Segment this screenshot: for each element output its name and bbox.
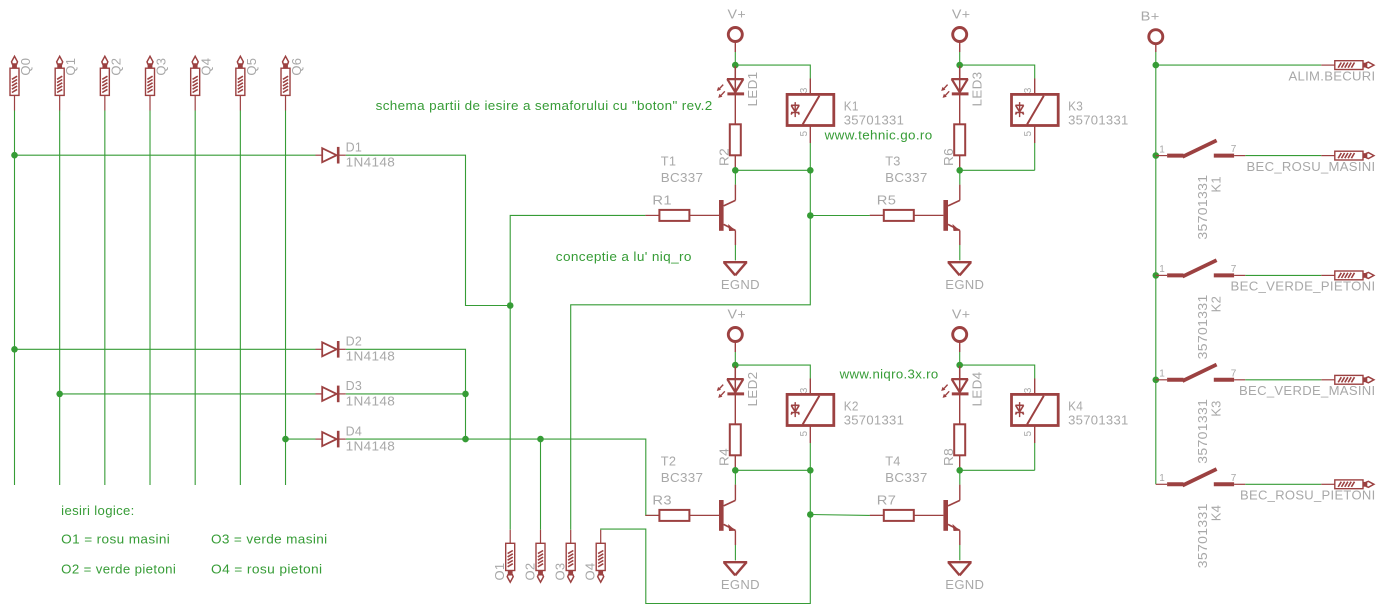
junction collector node <box>956 167 963 174</box>
svg-text:35701331: 35701331 <box>1068 413 1129 428</box>
supply V+ ring (T2 stage) <box>728 328 742 342</box>
note O2 <box>61 562 176 577</box>
pin R3 right lead / base <box>689 514 719 516</box>
svg-text:35701331: 35701331 <box>844 413 905 428</box>
transistor T3 <box>943 200 960 231</box>
pin 5 (K2) <box>809 426 811 444</box>
svg-text:Q0: Q0 <box>18 58 33 76</box>
pin number 7 (K2 contact) <box>1231 264 1237 275</box>
pin 5 (K4) <box>1034 426 1036 444</box>
note www.tehnic.go.ro <box>824 127 933 142</box>
wire node C to O3 <box>571 216 811 530</box>
svg-text:R2: R2 <box>717 148 732 166</box>
svg-text:V+: V+ <box>952 7 971 22</box>
svg-text:5: 5 <box>799 131 810 137</box>
note conceptie <box>556 249 692 264</box>
junction K2 pin5 node <box>807 467 814 474</box>
value 35701331 (K2 contact) <box>1195 294 1210 359</box>
transistor T1 <box>719 200 736 231</box>
label R5 <box>877 193 897 208</box>
svg-text:1N4148: 1N4148 <box>346 155 396 170</box>
label EGND (T2) <box>721 577 760 592</box>
label BEC_VERDE_MASINI <box>1239 383 1376 398</box>
svg-text:Q6: Q6 <box>289 58 304 76</box>
label R8 <box>941 448 956 466</box>
pin collector lead <box>959 185 961 201</box>
value BC337 (T3) <box>885 170 928 185</box>
pin R7 input lead <box>870 514 885 516</box>
wire net Q4 vertical <box>194 111 196 486</box>
wire V+ stub <box>734 352 736 365</box>
junction collector node <box>732 467 739 474</box>
wire B+ bus vertical <box>1155 65 1157 484</box>
svg-text:Q3: Q3 <box>154 58 169 76</box>
svg-text:5: 5 <box>799 431 810 437</box>
supply B+ ring <box>1149 30 1163 44</box>
wire D2 cathode down <box>346 349 466 439</box>
junction B+ bus / K2 contact <box>1153 272 1160 279</box>
note O3 <box>211 532 328 547</box>
note www.niqro.3x.ro <box>839 367 939 382</box>
label T2 <box>661 453 677 468</box>
svg-text:O2: O2 <box>523 563 538 581</box>
pin number 5 (K3) <box>1023 131 1034 137</box>
pin number 5 (K4) <box>1023 431 1034 437</box>
wire D3 cathode <box>346 393 466 395</box>
pin number 1 (K3 contact) <box>1159 369 1165 380</box>
pin number 1 (K1 contact) <box>1159 144 1165 155</box>
ground EGND (T3) <box>948 262 972 275</box>
junction V+ node <box>956 62 963 69</box>
label K3 <box>1068 98 1083 113</box>
svg-text:K3: K3 <box>1068 98 1083 113</box>
svg-text:schema partii de iesire a sema: schema partii de iesire a semaforului cu… <box>376 98 713 113</box>
label K4 (contact) <box>1208 505 1223 522</box>
pin R2 top lead <box>734 95 736 124</box>
note O4 <box>211 562 323 577</box>
svg-text:O4 = rosu pietoni: O4 = rosu pietoni <box>211 562 323 577</box>
junction Q6/D4 row <box>282 436 289 443</box>
svg-text:3: 3 <box>799 387 810 393</box>
value 35701331 (K1) <box>844 113 905 128</box>
wire net Q0 vertical <box>14 111 16 486</box>
label K1 <box>844 98 859 113</box>
pin collector lead <box>959 485 961 501</box>
wire D3 anode row <box>60 393 316 395</box>
label Q0 <box>18 58 33 76</box>
wire V+ stub <box>734 52 736 65</box>
label K4 <box>1068 398 1083 413</box>
wire node B to O2 <box>540 439 542 530</box>
pin number 5 (K2) <box>799 431 810 437</box>
svg-text:5: 5 <box>1023 131 1034 137</box>
wire collector node to K3 pin 5 <box>960 169 1035 171</box>
svg-text:BEC_VERDE_PIETONI: BEC_VERDE_PIETONI <box>1231 279 1376 294</box>
resistor R5 <box>884 210 914 221</box>
junction T3 base feed <box>807 212 814 219</box>
wire V+ to K4 pin 3 <box>960 365 1035 378</box>
svg-text:O2 = verde pietoni: O2 = verde pietoni <box>61 562 176 577</box>
label Q4 <box>199 58 214 76</box>
svg-text:7: 7 <box>1231 473 1237 484</box>
svg-text:BC337: BC337 <box>661 470 704 485</box>
svg-text:1: 1 <box>1159 264 1165 275</box>
diode D2 <box>316 341 346 358</box>
resistor R1 <box>659 210 689 221</box>
junction collector node <box>956 467 963 474</box>
label O2 <box>523 563 538 581</box>
svg-text:LED1: LED1 <box>745 72 760 107</box>
pin number 3 (K3) <box>1023 87 1034 93</box>
pin 5 (K3) <box>1034 126 1036 144</box>
value 1N4148 (D2) <box>346 349 396 364</box>
pin 5 (K1) <box>809 126 811 144</box>
label Q2 <box>108 58 123 76</box>
label R6 <box>941 148 956 166</box>
svg-text:D4: D4 <box>346 423 363 438</box>
svg-text:35701331: 35701331 <box>1068 113 1129 128</box>
svg-text:3: 3 <box>799 87 810 93</box>
svg-text:1N4148: 1N4148 <box>346 393 396 408</box>
switch contact K2 <box>1156 260 1246 276</box>
pin R4 top lead <box>734 395 736 424</box>
resistor R2 <box>730 124 741 155</box>
svg-text:R6: R6 <box>941 148 956 166</box>
svg-text:T1: T1 <box>661 153 677 168</box>
svg-text:7: 7 <box>1231 264 1237 275</box>
resistor R3 <box>659 510 689 521</box>
svg-text:K1: K1 <box>1208 176 1223 193</box>
supply V+ ring (T3 stage) <box>953 28 967 42</box>
value 35701331 (K1 contact) <box>1195 175 1210 240</box>
pin R8 bottom lead <box>959 455 961 469</box>
relay coil K1 <box>787 94 834 125</box>
value BC337 (T1) <box>661 170 704 185</box>
resistor R6 <box>954 124 965 155</box>
svg-text:1N4148: 1N4148 <box>346 349 396 364</box>
supply V+ ring (T1 stage) <box>728 28 742 42</box>
svg-text:R3: R3 <box>652 493 672 508</box>
pin R2 bottom lead <box>734 155 736 169</box>
wire collector node to K1 pin 5 <box>735 169 810 171</box>
pin R5 input lead <box>870 214 885 216</box>
svg-text:V+: V+ <box>728 307 747 322</box>
pin 3 (K4) <box>1034 379 1036 395</box>
svg-text:7: 7 <box>1231 368 1237 379</box>
pin R6 top lead <box>959 95 961 124</box>
svg-text:R4: R4 <box>717 448 732 466</box>
wire B+ stub <box>1155 52 1157 65</box>
label R4 <box>717 448 732 466</box>
value 35701331 (K4) <box>1068 413 1129 428</box>
wire B+ to ALIM.BECURI <box>1156 64 1322 66</box>
wire R to collector node <box>734 169 736 171</box>
svg-text:Q2: Q2 <box>108 58 123 76</box>
wire to R7 <box>810 514 870 517</box>
label D1 <box>346 140 363 155</box>
diode D3 <box>316 386 346 403</box>
svg-text:BC337: BC337 <box>661 170 704 185</box>
wire collector node to K2 pin 5 <box>735 469 810 471</box>
ground EGND (T2) <box>723 562 747 575</box>
value 35701331 (K3 contact) <box>1195 399 1210 464</box>
pin collector lead <box>734 485 736 501</box>
svg-text:O1 = rosu masini: O1 = rosu masini <box>61 532 170 547</box>
relay coil K4 <box>1012 394 1059 425</box>
pin emitter lead <box>959 530 961 545</box>
label K2 <box>844 398 859 413</box>
svg-text:35701331: 35701331 <box>844 113 905 128</box>
resistor R8 <box>954 424 965 455</box>
connector Q1 <box>55 56 64 110</box>
svg-text:conceptie a lu' niq_ro: conceptie a lu' niq_ro <box>556 249 692 264</box>
pin 3 (K2) <box>809 379 811 395</box>
svg-text:www.tehnic.go.ro: www.tehnic.go.ro <box>824 127 933 142</box>
label K3 (contact) <box>1208 400 1223 417</box>
pin B+ lead <box>1155 44 1157 52</box>
svg-text:T4: T4 <box>885 453 901 468</box>
svg-text:3: 3 <box>1023 87 1034 93</box>
svg-text:K3: K3 <box>1208 400 1223 417</box>
pin number 7 (K4 contact) <box>1231 473 1237 484</box>
switch contact K1 <box>1156 140 1246 156</box>
junction V+ node <box>956 362 963 369</box>
junction B+ bus / K3 contact <box>1153 377 1160 384</box>
supply V+ (T3 stage) <box>952 7 971 22</box>
junction D2/D3 <box>462 391 469 398</box>
svg-text:R7: R7 <box>877 493 897 508</box>
svg-text:K1: K1 <box>844 98 859 113</box>
pin collector lead <box>734 185 736 201</box>
supply V+ (T1 stage) <box>728 7 747 22</box>
connector Q0 <box>10 56 19 110</box>
pin number 7 (K1 contact) <box>1231 144 1237 155</box>
junction collector node <box>732 167 739 174</box>
label T4 <box>885 453 901 468</box>
label R7 <box>877 493 897 508</box>
wire K2 pin 5 to collector node <box>809 443 811 470</box>
wire D2 anode row <box>15 348 316 350</box>
svg-text:O4: O4 <box>583 563 598 581</box>
svg-text:V+: V+ <box>728 7 747 22</box>
value BC337 (T2) <box>661 470 704 485</box>
svg-text:5: 5 <box>1023 431 1034 437</box>
label O1 <box>492 563 507 581</box>
wire net Q5 vertical <box>239 111 241 486</box>
pin V+ lead <box>959 342 961 353</box>
pin number 1 (K2 contact) <box>1159 264 1165 275</box>
note O1 <box>61 532 170 547</box>
label O4 <box>583 563 598 581</box>
svg-text:K4: K4 <box>1068 398 1083 413</box>
wire D1 anode row <box>15 154 316 156</box>
label Q6 <box>289 58 304 76</box>
value BC337 (T4) <box>885 470 928 485</box>
pin LED anode lead <box>734 366 736 379</box>
pin R3 left lead <box>645 514 659 516</box>
wire V+ to K2 pin 3 <box>735 365 810 378</box>
ground EGND (T1) <box>723 262 747 275</box>
junction V+ node <box>732 62 739 69</box>
wire collector to node <box>959 170 961 184</box>
svg-text:BEC_ROSU_PIETONI: BEC_ROSU_PIETONI <box>1240 488 1376 503</box>
connector Q4 <box>191 56 200 110</box>
pin R1 left lead <box>645 214 659 216</box>
connector O3 <box>566 530 575 582</box>
wire collector node to K4 pin 5 <box>960 469 1035 471</box>
supply B+ <box>1141 9 1160 24</box>
wire K1 pin 5 to collector node <box>809 143 811 170</box>
transistor T4 <box>943 500 960 531</box>
junction node A <box>507 302 514 309</box>
svg-text:EGND: EGND <box>721 277 760 292</box>
svg-text:Q1: Q1 <box>63 58 78 76</box>
label D3 <box>346 378 363 393</box>
label LED2 <box>745 372 760 407</box>
pin LED anode lead <box>959 66 961 79</box>
svg-text:1: 1 <box>1159 473 1165 484</box>
pin number 1 (K4 contact) <box>1159 473 1165 484</box>
label Q3 <box>154 58 169 76</box>
wire collector to node <box>734 170 736 184</box>
junction B+ bus / K1 contact <box>1153 152 1160 159</box>
pin R1 right lead / base <box>689 214 719 216</box>
junction Q1/D3 row <box>56 391 63 398</box>
pin V+ lead <box>734 42 736 53</box>
label ALIM.BECURI <box>1289 68 1376 83</box>
pin number 3 (K4) <box>1023 387 1034 393</box>
connector O1 <box>506 530 515 582</box>
pin 3 (K3) <box>1034 79 1036 95</box>
svg-text:ALIM.BECURI: ALIM.BECURI <box>1289 68 1376 83</box>
value 1N4148 (D3) <box>346 393 396 408</box>
wire collector to node <box>959 470 961 484</box>
connector Q3 <box>146 56 155 110</box>
wire V+ to K3 pin 3 <box>960 65 1035 78</box>
pin V+ lead <box>734 342 736 353</box>
svg-text:BC337: BC337 <box>885 470 928 485</box>
label EGND (T4) <box>945 577 984 592</box>
svg-text:www.niqro.3x.ro: www.niqro.3x.ro <box>839 367 939 382</box>
note iesiri logice <box>61 503 135 518</box>
junction O2/node B <box>537 436 544 443</box>
LED LED1 <box>717 67 744 98</box>
pin emitter lead <box>959 230 961 245</box>
pin R4 bottom lead <box>734 455 736 469</box>
label EGND (T1) <box>721 277 760 292</box>
value 1N4148 (D4) <box>346 439 396 454</box>
junction V+ node <box>732 362 739 369</box>
value 35701331 (K4 contact) <box>1195 503 1210 568</box>
label BEC_ROSU_MASINI <box>1247 159 1376 174</box>
svg-text:R1: R1 <box>652 193 672 208</box>
svg-text:R8: R8 <box>941 448 956 466</box>
svg-text:O1: O1 <box>492 563 507 581</box>
junction Q0/D2 row <box>11 346 18 353</box>
value 1N4148 (D1) <box>346 155 396 170</box>
pin number 7 (K3 contact) <box>1231 368 1237 379</box>
wire to R5 <box>810 215 870 217</box>
pin emitter lead <box>734 230 736 245</box>
ground EGND (T4) <box>948 562 972 575</box>
pin number 3 (K2) <box>799 387 810 393</box>
svg-text:O3: O3 <box>553 563 568 581</box>
label R3 <box>652 493 672 508</box>
junction K1 pin5 node <box>807 167 814 174</box>
svg-text:LED4: LED4 <box>970 372 985 407</box>
svg-text:Q4: Q4 <box>199 58 214 76</box>
pin emitter lead <box>734 530 736 545</box>
svg-text:K2: K2 <box>1208 296 1223 313</box>
label T3 <box>885 153 901 168</box>
svg-text:K2: K2 <box>844 398 859 413</box>
label D2 <box>346 334 363 349</box>
svg-text:BC337: BC337 <box>885 170 928 185</box>
pin 3 (K1) <box>809 79 811 95</box>
connector ALIM.BECURI <box>1321 61 1374 70</box>
svg-text:D3: D3 <box>346 378 363 393</box>
wire R to collector node <box>959 469 961 471</box>
label K2 (contact) <box>1208 296 1223 313</box>
wire K4 pin 5 to collector node <box>1034 443 1036 470</box>
svg-text:LED3: LED3 <box>970 72 985 107</box>
label T1 <box>661 153 677 168</box>
svg-text:T3: T3 <box>885 153 901 168</box>
connector BEC_VERDE_PIETONI <box>1321 271 1374 280</box>
wire K4 contact to BEC_ROSU_PIETONI <box>1245 483 1321 485</box>
wire V+ stub <box>959 52 961 65</box>
wire node B to R3 <box>346 439 660 515</box>
svg-text:EGND: EGND <box>945 277 984 292</box>
svg-text:1N4148: 1N4148 <box>346 439 396 454</box>
relay coil K3 <box>1012 94 1059 125</box>
svg-text:R5: R5 <box>877 193 897 208</box>
wire node A to R1 <box>510 215 645 305</box>
LED LED3 <box>941 67 968 98</box>
svg-text:K4: K4 <box>1208 505 1223 522</box>
svg-text:D2: D2 <box>346 334 363 349</box>
label Q5 <box>244 58 259 76</box>
pin LED anode lead <box>959 366 961 379</box>
wire D1 cathode to node A <box>346 155 510 305</box>
svg-text:T2: T2 <box>661 453 677 468</box>
label LED3 <box>970 72 985 107</box>
label BEC_VERDE_PIETONI <box>1231 279 1376 294</box>
switch contact K3 <box>1156 365 1246 381</box>
connector Q6 <box>281 56 290 110</box>
LED LED4 <box>941 367 968 398</box>
connector BEC_ROSU_MASINI <box>1321 151 1374 160</box>
supply V+ (T2 stage) <box>728 307 747 322</box>
wire emitter to ground <box>959 245 961 260</box>
junction T4 base feed <box>807 511 814 518</box>
label LED1 <box>745 72 760 107</box>
note schema partii <box>376 98 713 113</box>
label BEC_ROSU_PIETONI <box>1240 488 1376 503</box>
wire emitter to ground <box>734 245 736 260</box>
junction Q0/D1 row <box>11 152 18 159</box>
wire R to collector node <box>734 469 736 471</box>
pin R6 bottom lead <box>959 155 961 169</box>
connector BEC_VERDE_MASINI <box>1321 375 1374 384</box>
svg-text:Q5: Q5 <box>244 58 259 76</box>
junction B+ node <box>1153 62 1160 69</box>
wire K1 contact to BEC_ROSU_MASINI <box>1245 155 1321 157</box>
connector Q5 <box>236 56 245 110</box>
label R2 <box>717 148 732 166</box>
wire R to collector node <box>959 169 961 171</box>
diode D4 <box>316 431 346 448</box>
